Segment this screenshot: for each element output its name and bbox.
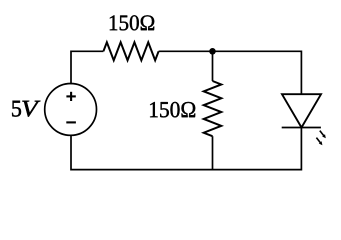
wire node to top-right corner and down to diode [213, 51, 302, 94]
wire middle branch from node to R2 [212, 51, 214, 81]
diode D1 (LED) triangle [282, 94, 321, 127]
diode D1 cathode bar [282, 127, 321, 129]
label 150&#937; (R1 value) [110, 15, 154, 30]
wire resistor to node [159, 50, 213, 52]
label 5V (source value) [12, 101, 21, 117]
LED emission arrow 1 [320, 131, 326, 139]
resistor R1 (150 ohm, horizontal) [103, 42, 158, 60]
wire R2 bottom to bottom wire [212, 136, 214, 169]
label 150&#937; (R2 value) [150, 102, 195, 118]
wire V1 bottom to bottom-left corner [71, 135, 213, 170]
minus sign inside V1 [66, 121, 76, 123]
resistor R2 (150 ohm, vertical) [204, 81, 222, 136]
node junction dot [209, 48, 216, 55]
bottom wire right segment [213, 128, 302, 170]
plus sign inside V1 [66, 92, 75, 101]
wire top-left segment [71, 51, 103, 84]
LED emission arrow 2 [316, 138, 322, 146]
voltage source V1 circle [45, 84, 97, 136]
